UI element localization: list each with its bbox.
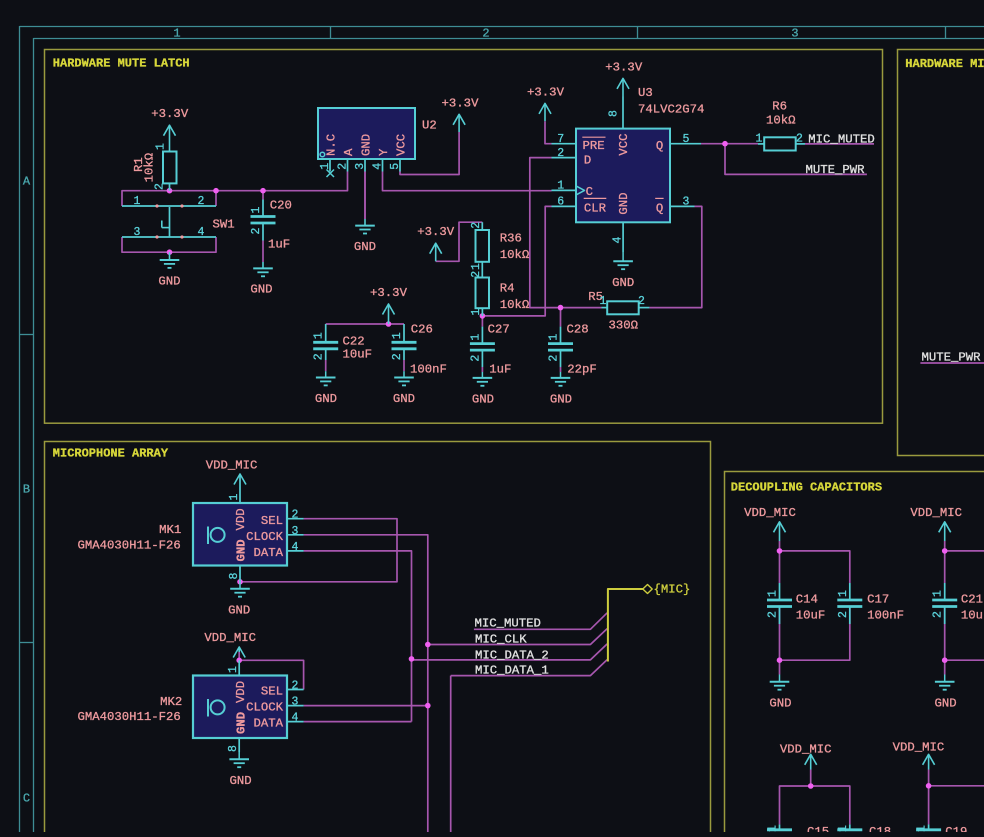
svg-text:8: 8 bbox=[227, 745, 240, 752]
svg-text:2: 2 bbox=[250, 228, 263, 235]
svg-text:+3.3V: +3.3V bbox=[370, 286, 408, 300]
svg-text:10uF: 10uF bbox=[796, 609, 826, 623]
svg-text:3: 3 bbox=[134, 226, 141, 239]
svg-text:VDD_MIC: VDD_MIC bbox=[780, 743, 832, 757]
svg-text:GND: GND bbox=[315, 392, 337, 406]
svg-text:R4: R4 bbox=[500, 282, 515, 296]
svg-text:DATA: DATA bbox=[253, 717, 283, 731]
svg-text:VCC: VCC bbox=[617, 133, 631, 155]
svg-text:SW1: SW1 bbox=[213, 217, 235, 231]
svg-text:1: 1 bbox=[756, 132, 763, 145]
svg-text:C15: C15 bbox=[807, 825, 829, 832]
svg-text:74LVC2G74: 74LVC2G74 bbox=[638, 102, 704, 116]
svg-text:1: 1 bbox=[173, 26, 180, 40]
svg-text:GND: GND bbox=[769, 696, 791, 710]
svg-text:VDD: VDD bbox=[234, 508, 248, 530]
svg-text:2: 2 bbox=[154, 183, 167, 190]
svg-text:MICROPHONE ARRAY: MICROPHONE ARRAY bbox=[53, 447, 169, 461]
svg-text:2: 2 bbox=[557, 147, 564, 160]
svg-text:10kΩ: 10kΩ bbox=[500, 248, 530, 262]
svg-text:DATA: DATA bbox=[253, 546, 283, 560]
svg-text:100nF: 100nF bbox=[410, 362, 447, 376]
svg-text:2: 2 bbox=[292, 680, 299, 693]
svg-text:C: C bbox=[23, 791, 30, 805]
svg-text:1: 1 bbox=[470, 309, 483, 316]
svg-text:2: 2 bbox=[932, 611, 945, 618]
svg-text:GMA4030H11-F26: GMA4030H11-F26 bbox=[78, 710, 181, 724]
svg-text:CLOCK: CLOCK bbox=[246, 701, 284, 715]
svg-text:C17: C17 bbox=[867, 592, 889, 606]
svg-text:1: 1 bbox=[548, 334, 561, 341]
svg-text:1: 1 bbox=[469, 334, 482, 341]
svg-text:GND: GND bbox=[393, 392, 415, 406]
svg-text:GND: GND bbox=[354, 240, 376, 254]
svg-text:C20: C20 bbox=[270, 198, 292, 212]
svg-text:MIC_DATA_2: MIC_DATA_2 bbox=[475, 648, 549, 662]
svg-text:3: 3 bbox=[354, 163, 367, 170]
svg-text:MK1: MK1 bbox=[159, 523, 181, 537]
svg-text:1: 1 bbox=[228, 494, 241, 501]
svg-text:C21: C21 bbox=[961, 592, 983, 606]
svg-text:CLR: CLR bbox=[584, 201, 607, 215]
svg-text:3: 3 bbox=[292, 525, 299, 538]
svg-text:{MIC}: {MIC} bbox=[654, 582, 691, 596]
svg-text:1: 1 bbox=[557, 180, 564, 193]
svg-text:2: 2 bbox=[796, 132, 803, 145]
svg-text:6: 6 bbox=[557, 196, 564, 209]
svg-text:5: 5 bbox=[389, 163, 402, 170]
svg-text:C: C bbox=[586, 185, 593, 199]
svg-text:GND: GND bbox=[935, 696, 957, 710]
svg-text:4: 4 bbox=[612, 237, 625, 244]
svg-text:N.C: N.C bbox=[325, 134, 339, 156]
svg-text:1: 1 bbox=[313, 332, 326, 339]
svg-text:GND: GND bbox=[360, 134, 374, 156]
svg-text:C28: C28 bbox=[567, 323, 589, 337]
svg-text:1uF: 1uF bbox=[489, 362, 511, 376]
svg-text:10uF: 10uF bbox=[961, 609, 984, 623]
svg-text:1uF: 1uF bbox=[268, 237, 290, 251]
svg-text:10kΩ: 10kΩ bbox=[143, 152, 157, 182]
svg-text:VDD_MIC: VDD_MIC bbox=[206, 458, 258, 472]
svg-text:8: 8 bbox=[228, 573, 241, 580]
svg-text:MIC_DATA_1: MIC_DATA_1 bbox=[475, 664, 549, 678]
svg-text:1: 1 bbox=[767, 590, 780, 597]
svg-text:U2: U2 bbox=[422, 118, 437, 132]
svg-text:MK2: MK2 bbox=[160, 695, 182, 709]
svg-text:1: 1 bbox=[470, 263, 483, 270]
svg-text:+3.3V: +3.3V bbox=[605, 60, 643, 74]
svg-text:GMA4030H11-F26: GMA4030H11-F26 bbox=[78, 538, 181, 552]
svg-text:330Ω: 330Ω bbox=[609, 319, 639, 333]
svg-text:2: 2 bbox=[391, 353, 404, 360]
svg-text:GND: GND bbox=[229, 774, 251, 788]
svg-text:+3.3V: +3.3V bbox=[417, 225, 455, 239]
svg-text:2: 2 bbox=[469, 355, 482, 362]
svg-text:2: 2 bbox=[837, 611, 850, 618]
svg-text:4: 4 bbox=[372, 163, 385, 170]
svg-text:1: 1 bbox=[837, 825, 850, 832]
svg-text:A: A bbox=[342, 148, 356, 156]
svg-text:2: 2 bbox=[638, 295, 645, 308]
svg-text:GND: GND bbox=[228, 603, 250, 617]
svg-text:2: 2 bbox=[548, 355, 561, 362]
svg-text:2: 2 bbox=[337, 163, 350, 170]
svg-text:C19: C19 bbox=[945, 825, 967, 832]
svg-text:MUTE_PWR: MUTE_PWR bbox=[806, 163, 866, 177]
svg-text:8: 8 bbox=[608, 110, 621, 117]
svg-text:C26: C26 bbox=[411, 323, 433, 337]
svg-text:R6: R6 bbox=[772, 100, 787, 114]
svg-text:D: D bbox=[584, 153, 591, 167]
svg-text:1: 1 bbox=[932, 590, 945, 597]
svg-text:HARDWARE MIC: HARDWARE MIC bbox=[905, 57, 984, 71]
svg-text:VDD_MIC: VDD_MIC bbox=[744, 506, 796, 520]
svg-text:CLOCK: CLOCK bbox=[246, 530, 284, 544]
svg-text:1: 1 bbox=[134, 195, 141, 208]
svg-text:U3: U3 bbox=[638, 86, 653, 100]
svg-text:Y: Y bbox=[377, 148, 391, 156]
svg-text:C27: C27 bbox=[488, 323, 510, 337]
svg-text:DECOUPLING CAPACITORS: DECOUPLING CAPACITORS bbox=[731, 481, 882, 495]
svg-text:HARDWARE MUTE LATCH: HARDWARE MUTE LATCH bbox=[53, 56, 190, 70]
svg-text:A: A bbox=[23, 174, 31, 188]
svg-text:1: 1 bbox=[837, 590, 850, 597]
svg-text:+3.3V: +3.3V bbox=[151, 107, 189, 121]
svg-text:7: 7 bbox=[557, 133, 564, 146]
svg-text:VDD: VDD bbox=[234, 681, 248, 703]
svg-text:3: 3 bbox=[683, 196, 690, 209]
svg-text:5: 5 bbox=[683, 133, 690, 146]
svg-text:2: 2 bbox=[470, 271, 483, 278]
svg-text:1: 1 bbox=[767, 825, 780, 832]
svg-text:1: 1 bbox=[250, 207, 263, 214]
svg-text:4: 4 bbox=[198, 226, 205, 239]
svg-text:2: 2 bbox=[313, 353, 326, 360]
svg-text:GND: GND bbox=[472, 392, 494, 406]
svg-text:+3.3V: +3.3V bbox=[527, 85, 565, 99]
svg-text:Q: Q bbox=[656, 201, 663, 215]
svg-text:3: 3 bbox=[791, 26, 798, 40]
svg-text:+3.3V: +3.3V bbox=[442, 96, 480, 110]
svg-text:VDD_MIC: VDD_MIC bbox=[910, 506, 962, 520]
svg-text:2: 2 bbox=[767, 611, 780, 618]
svg-text:PRE: PRE bbox=[583, 139, 605, 153]
svg-text:1: 1 bbox=[155, 143, 168, 150]
svg-text:GND: GND bbox=[617, 192, 631, 214]
svg-text:10kΩ: 10kΩ bbox=[500, 298, 530, 312]
svg-text:MIC_MUTED: MIC_MUTED bbox=[475, 617, 541, 631]
svg-text:C18: C18 bbox=[869, 825, 891, 832]
svg-text:1: 1 bbox=[600, 295, 607, 308]
svg-text:R36: R36 bbox=[500, 232, 522, 246]
svg-text:SEL: SEL bbox=[261, 685, 283, 699]
svg-text:4: 4 bbox=[292, 541, 299, 554]
svg-text:2: 2 bbox=[292, 509, 299, 522]
svg-text:22pF: 22pF bbox=[567, 362, 597, 376]
svg-text:1: 1 bbox=[391, 332, 404, 339]
svg-text:10kΩ: 10kΩ bbox=[766, 113, 796, 127]
svg-text:1: 1 bbox=[319, 163, 332, 170]
svg-text:MIC_CLK: MIC_CLK bbox=[475, 633, 527, 647]
svg-text:B: B bbox=[23, 482, 30, 496]
svg-text:10uF: 10uF bbox=[343, 348, 373, 362]
svg-text:SEL: SEL bbox=[261, 514, 283, 528]
svg-text:2: 2 bbox=[198, 195, 205, 208]
svg-text:GND: GND bbox=[250, 282, 272, 296]
svg-text:100nF: 100nF bbox=[867, 609, 904, 623]
svg-text:GND: GND bbox=[235, 712, 249, 734]
svg-text:3: 3 bbox=[292, 696, 299, 709]
svg-text:Q: Q bbox=[656, 139, 663, 153]
svg-text:2: 2 bbox=[482, 26, 489, 40]
svg-text:4: 4 bbox=[292, 712, 299, 725]
svg-text:MIC_MUTED: MIC_MUTED bbox=[808, 132, 874, 146]
svg-text:1: 1 bbox=[227, 666, 240, 673]
svg-text:GND: GND bbox=[550, 392, 572, 406]
svg-text:GND: GND bbox=[158, 275, 180, 289]
svg-text:VDD_MIC: VDD_MIC bbox=[893, 741, 945, 755]
svg-text:C14: C14 bbox=[796, 592, 818, 606]
svg-text:2: 2 bbox=[470, 222, 483, 229]
svg-text:VCC: VCC bbox=[395, 134, 409, 156]
svg-text:VDD_MIC: VDD_MIC bbox=[204, 631, 256, 645]
svg-text:GND: GND bbox=[612, 276, 634, 290]
svg-text:MUTE_PWR: MUTE_PWR bbox=[922, 350, 982, 364]
svg-text:1: 1 bbox=[916, 825, 929, 832]
